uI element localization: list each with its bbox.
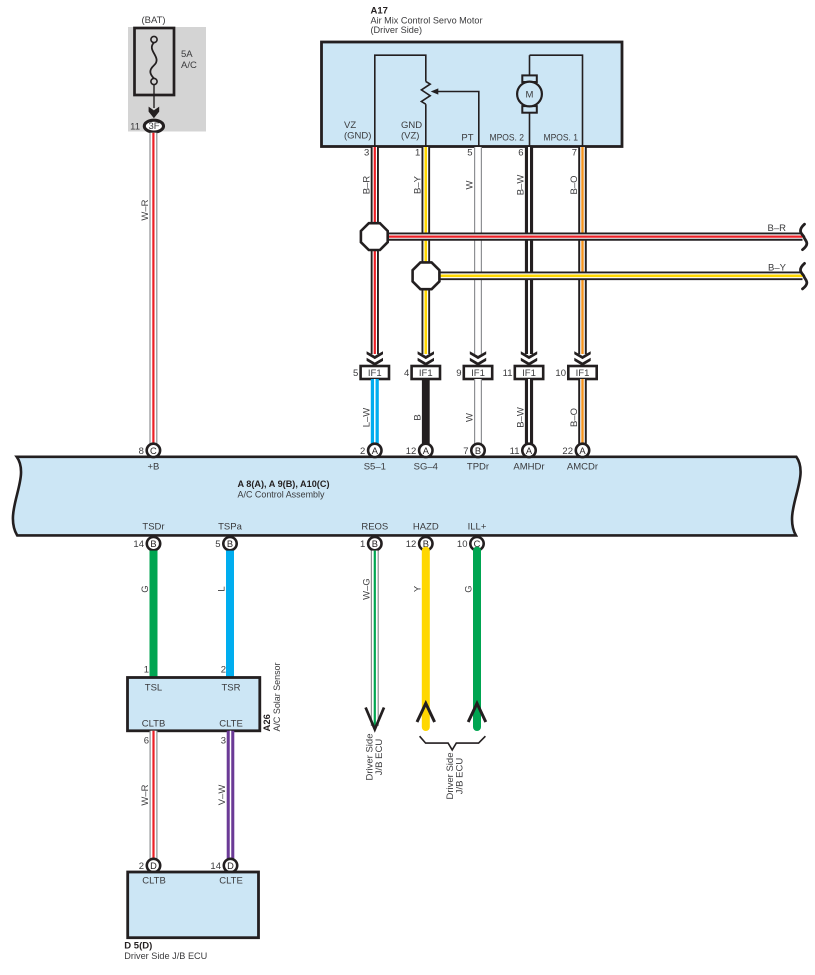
- node TSDr terminal 14(B): [133, 537, 160, 550]
- svg-text:B: B: [150, 539, 156, 549]
- svg-text:ILL+: ILL+: [468, 522, 487, 533]
- svg-text:CLTE: CLTE: [219, 876, 243, 887]
- wire B-W pin6 to IF1: [525, 147, 533, 354]
- node CLTE D terminal 14(D): [210, 859, 237, 872]
- wire W IF1 to TPDr: [474, 379, 482, 444]
- svg-text:Y: Y: [413, 585, 424, 592]
- svg-text:3: 3: [364, 148, 369, 159]
- svg-text:TSPa: TSPa: [218, 522, 242, 533]
- svg-text:5A: 5A: [181, 49, 193, 60]
- wire continuation break symbol: [800, 263, 806, 289]
- svg-text:A/C Control Assembly: A/C Control Assembly: [238, 490, 325, 501]
- potentiometer element: [421, 82, 430, 105]
- node ILL+ terminal 10(C): [457, 537, 484, 550]
- svg-text:MPOS. 1: MPOS. 1: [544, 133, 579, 144]
- svg-text:IF1: IF1: [576, 368, 590, 379]
- svg-text:PT: PT: [461, 133, 473, 144]
- wiper arrow to PT pin5: [437, 92, 479, 147]
- junction arrow into IF1 at x=529.0: [521, 351, 537, 366]
- junction arrow into IF1 at x=425.8: [418, 351, 434, 366]
- junction J2 B-Y: [413, 262, 440, 289]
- svg-text:5: 5: [467, 148, 472, 159]
- fuse F 5A A/C: [135, 28, 175, 95]
- node AMHDr terminal 11(A): [510, 444, 536, 457]
- arrowhead W-G to driver side J/B ECU: [366, 708, 384, 730]
- component A26 A/C Solar Sensor box: [128, 678, 260, 731]
- svg-text:B–Y: B–Y: [768, 262, 787, 273]
- svg-text:5: 5: [353, 368, 358, 379]
- wire B-O pin7 to IF1: [578, 147, 587, 354]
- svg-text:B: B: [227, 539, 233, 549]
- connector IF1 pin 5: [353, 366, 389, 379]
- svg-text:(VZ): (VZ): [401, 131, 419, 142]
- wire fuse to 3F: [153, 85, 155, 108]
- wire Y HAZD to J/B ECU: [422, 551, 430, 727]
- svg-text:SG–4: SG–4: [414, 462, 438, 473]
- wire B-R pin3 to IF1: [371, 147, 379, 354]
- junction J1 B-R: [361, 223, 388, 250]
- node SG-4 terminal 12(A): [406, 444, 433, 457]
- component A17 box: [322, 42, 623, 147]
- svg-text:L: L: [217, 586, 228, 591]
- svg-text:12: 12: [406, 446, 417, 457]
- node AMCDr terminal 22(A): [562, 444, 589, 457]
- node REOS terminal 1(B): [360, 537, 381, 550]
- arrowhead into 3F: [149, 107, 160, 119]
- svg-text:VZ: VZ: [344, 120, 356, 131]
- svg-text:+B: +B: [147, 462, 159, 473]
- svg-text:B: B: [475, 446, 481, 456]
- svg-text:J/B ECU: J/B ECU: [455, 758, 466, 795]
- svg-text:TSL: TSL: [145, 683, 162, 694]
- svg-text:D: D: [150, 861, 157, 871]
- wire B-W IF1 to AMHDr: [525, 379, 533, 444]
- junction arrow into IF1 at x=478.0: [470, 351, 486, 366]
- svg-text:G: G: [464, 585, 475, 592]
- internal wire motor to pin7: [530, 55, 583, 146]
- node S5-1 terminal 2(A): [360, 444, 381, 457]
- svg-text:22: 22: [562, 446, 573, 457]
- svg-text:AMHDr: AMHDr: [513, 462, 544, 473]
- fuse holder shaded area: [128, 27, 206, 132]
- wire B-Y pin1 to IF1: [421, 147, 430, 354]
- svg-text:REOS: REOS: [361, 522, 388, 533]
- svg-text:TSDr: TSDr: [142, 522, 164, 533]
- internal wire potentiometer to pin1: [425, 104, 427, 146]
- svg-text:7: 7: [572, 148, 577, 159]
- wire B-O IF1 to AMCDr: [578, 379, 587, 444]
- svg-text:B–W: B–W: [516, 407, 527, 428]
- svg-text:W–R: W–R: [140, 784, 151, 805]
- connector IF1 pin 9: [456, 366, 492, 379]
- wire L TSPa to solar sensor: [226, 551, 234, 678]
- svg-text:B–Y: B–Y: [413, 175, 424, 194]
- svg-text:B: B: [413, 414, 424, 420]
- svg-text:V–W: V–W: [217, 785, 228, 806]
- motor M: [517, 55, 542, 146]
- svg-text:1: 1: [360, 539, 365, 550]
- svg-text:14: 14: [133, 539, 144, 550]
- node TSPa terminal 5(B): [215, 537, 236, 550]
- svg-text:W: W: [465, 180, 476, 189]
- svg-text:W–G: W–G: [362, 578, 373, 600]
- wire W-R fuse to +B: [149, 133, 157, 444]
- wire W-R CLTB to J/B: [150, 731, 158, 859]
- svg-text:J/B ECU: J/B ECU: [374, 739, 385, 776]
- svg-text:B–W: B–W: [516, 175, 527, 196]
- svg-text:10: 10: [457, 539, 468, 550]
- svg-text:6: 6: [144, 736, 149, 747]
- svg-text:7: 7: [463, 446, 468, 457]
- wire B IF1 to SG-4: [422, 379, 430, 444]
- svg-text:2: 2: [139, 861, 144, 872]
- arrowhead up on HAZD wire: [417, 703, 435, 722]
- svg-text:B–R: B–R: [362, 176, 373, 195]
- node HAZD terminal 12(B): [406, 537, 433, 550]
- svg-text:10: 10: [555, 368, 566, 379]
- component D5 Driver Side J/B ECU box: [128, 872, 259, 938]
- svg-text:M: M: [526, 90, 534, 101]
- svg-text:B–O: B–O: [569, 408, 580, 427]
- svg-text:1: 1: [144, 665, 149, 676]
- svg-text:14: 14: [210, 861, 221, 872]
- svg-text:MPOS. 2: MPOS. 2: [490, 133, 525, 144]
- svg-text:11: 11: [130, 122, 140, 133]
- wire V-W CLTE to J/B: [227, 731, 235, 859]
- svg-text:L–W: L–W: [362, 408, 373, 428]
- svg-text:(GND): (GND): [344, 131, 371, 142]
- svg-text:2: 2: [221, 665, 226, 676]
- brace Driver Side J/B ECU: [420, 736, 486, 750]
- node +B terminal 8(C): [139, 444, 160, 457]
- svg-text:6: 6: [518, 148, 523, 159]
- connector IF1 pin 10: [555, 366, 596, 379]
- svg-text:8: 8: [139, 446, 144, 457]
- svg-text:D 5(D): D 5(D): [124, 941, 152, 952]
- wire B-R branch to right: [380, 233, 803, 241]
- wire G TSDr to solar sensor: [150, 551, 158, 678]
- svg-text:5: 5: [215, 539, 220, 550]
- svg-text:11: 11: [510, 446, 520, 457]
- svg-text:IF1: IF1: [368, 368, 382, 379]
- internal wire pin3 VZ up and across: [375, 55, 426, 146]
- svg-text:A 8(A), A 9(B), A10(C): A 8(A), A 9(B), A10(C): [238, 479, 330, 490]
- svg-text:(BAT): (BAT): [141, 15, 165, 26]
- svg-text:D: D: [227, 861, 234, 871]
- svg-text:IF1: IF1: [471, 368, 485, 379]
- node CLTB D terminal 2(D): [139, 859, 160, 872]
- connector IF1 pin 4: [404, 366, 440, 379]
- svg-text:AMCDr: AMCDr: [567, 462, 598, 473]
- svg-text:A: A: [423, 446, 430, 456]
- svg-text:C: C: [150, 446, 157, 456]
- svg-text:S5–1: S5–1: [364, 462, 386, 473]
- wire continuation break symbol: [800, 224, 806, 250]
- svg-text:A/C: A/C: [181, 60, 197, 71]
- svg-text:12: 12: [406, 539, 417, 550]
- node 3F terminal 11: [130, 120, 163, 132]
- svg-text:1: 1: [415, 148, 420, 159]
- svg-text:G: G: [140, 585, 151, 592]
- svg-text:A: A: [579, 446, 586, 456]
- svg-text:Driver Side J/B ECU: Driver Side J/B ECU: [124, 951, 207, 962]
- svg-text:2: 2: [360, 446, 365, 457]
- svg-text:CLTB: CLTB: [142, 719, 166, 730]
- svg-text:CLTE: CLTE: [219, 719, 243, 730]
- svg-text:A: A: [526, 446, 533, 456]
- arrowhead up on ILL+ wire: [468, 703, 486, 722]
- svg-text:HAZD: HAZD: [413, 522, 439, 533]
- svg-text:B–R: B–R: [768, 223, 787, 234]
- wire L-W IF1 to S5-1: [371, 379, 379, 444]
- junction arrow into IF1 at x=582.5: [574, 351, 590, 366]
- svg-text:GND: GND: [401, 120, 422, 131]
- connector IF1 pin 11: [503, 366, 544, 379]
- svg-text:B–O: B–O: [569, 175, 580, 194]
- svg-text:IF1: IF1: [419, 368, 433, 379]
- svg-text:TPDr: TPDr: [467, 462, 489, 473]
- component A8/A9/A10 A/C Control Assembly band: [13, 457, 801, 536]
- svg-text:4: 4: [404, 368, 409, 379]
- svg-text:11: 11: [503, 368, 513, 379]
- svg-text:A: A: [372, 446, 379, 456]
- svg-text:W: W: [465, 413, 476, 422]
- svg-text:(Driver Side): (Driver Side): [371, 25, 423, 36]
- junction arrow into IF1 at x=374.8: [367, 351, 383, 366]
- wire W-G REOS to J/B ECU: [371, 551, 379, 726]
- svg-text:TSR: TSR: [222, 683, 241, 694]
- svg-text:CLTB: CLTB: [142, 876, 166, 887]
- svg-text:W–R: W–R: [140, 199, 151, 220]
- svg-text:3F: 3F: [148, 121, 159, 132]
- svg-text:IF1: IF1: [522, 368, 536, 379]
- svg-text:9: 9: [456, 368, 461, 379]
- wire W pin5 to IF1: [474, 147, 482, 354]
- node TPDr terminal 7(B): [463, 444, 484, 457]
- svg-text:3: 3: [221, 736, 226, 747]
- wire B-Y branch to right: [432, 271, 803, 280]
- svg-text:B: B: [372, 539, 378, 549]
- svg-text:A/C Solar Sensor: A/C Solar Sensor: [272, 663, 283, 732]
- wire G ILL+ to J/B ECU: [473, 551, 481, 727]
